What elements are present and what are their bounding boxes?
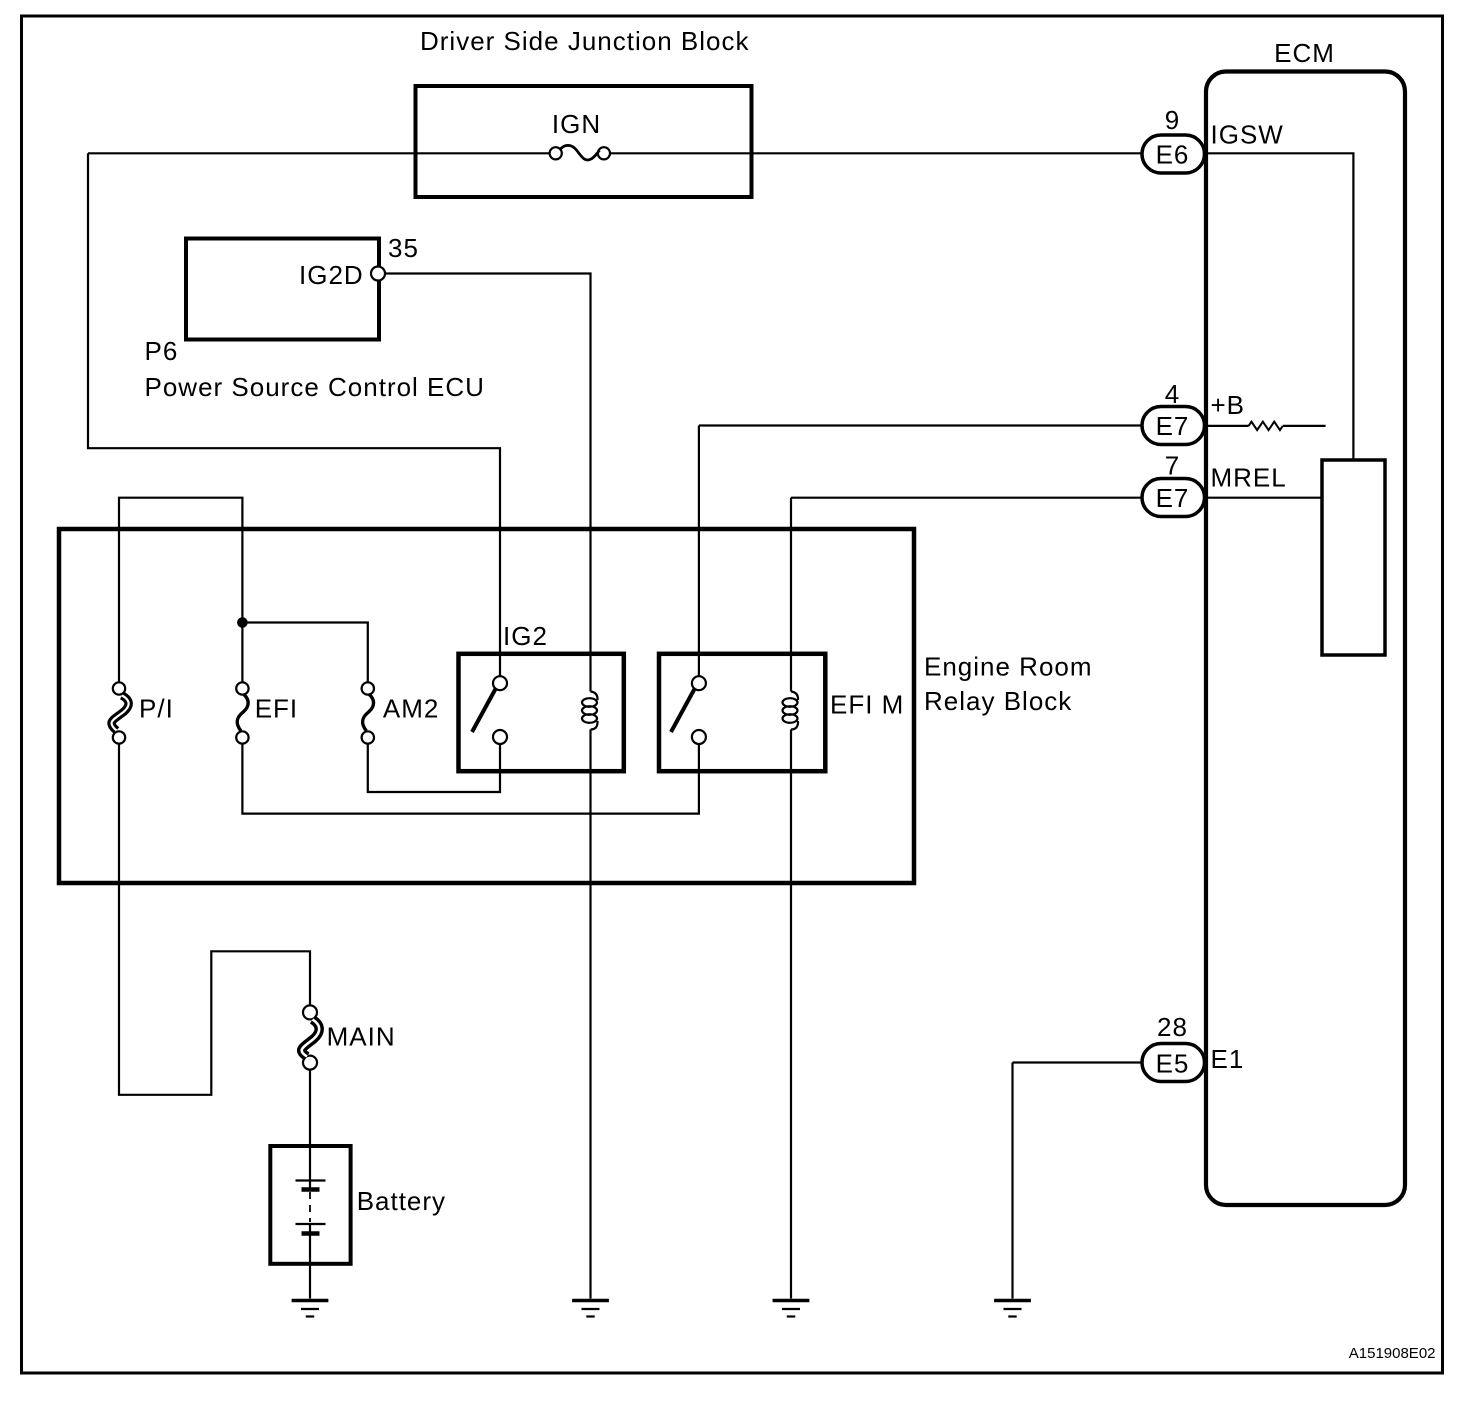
wire +B internal bbox=[1206, 425, 1326, 427]
ECM box bbox=[1206, 72, 1405, 1206]
svg-text:+B: +B bbox=[1211, 390, 1246, 420]
relay IG2 box bbox=[459, 654, 624, 771]
wire IG2 coil to ground bbox=[589, 730, 591, 1299]
ECM driver block bbox=[1322, 460, 1385, 655]
wire IGN drop left bbox=[88, 153, 500, 676]
svg-text:IG2: IG2 bbox=[503, 621, 548, 651]
svg-text:IGN: IGN bbox=[552, 109, 601, 139]
svg-text:EFI M: EFI M bbox=[830, 690, 904, 720]
wire AM2 branch bbox=[242, 623, 367, 683]
svg-text:35: 35 bbox=[388, 233, 419, 263]
svg-text:Battery: Battery bbox=[357, 1186, 446, 1216]
wire bridge P/I EFI bbox=[119, 498, 242, 683]
wire EFI M lower contact to EFI fuse bbox=[242, 744, 699, 814]
svg-text:P/I: P/I bbox=[139, 694, 174, 724]
ground E1 bbox=[994, 1301, 1031, 1317]
ground battery bbox=[292, 1301, 329, 1317]
pin 35 circle bbox=[371, 267, 385, 281]
wire IGSW internal bbox=[1206, 153, 1353, 460]
wire MREL external bbox=[791, 498, 1142, 692]
fuse P/I bbox=[112, 682, 129, 743]
svg-text:P6: P6 bbox=[145, 336, 179, 366]
battery cells bbox=[296, 1146, 326, 1264]
connector E6 pin 9 bbox=[1142, 135, 1205, 173]
relay EFI M coil bbox=[783, 692, 799, 730]
relay IG2 contacts bbox=[472, 676, 507, 744]
wire IGN right to E6 bbox=[610, 152, 1142, 154]
wire IG2 lower contact to AM2 bbox=[368, 744, 500, 792]
svg-text:E1: E1 bbox=[1211, 1044, 1245, 1074]
svg-text:EFI: EFI bbox=[255, 694, 298, 724]
connector E7 pin 7 bbox=[1142, 479, 1205, 517]
svg-text:E7: E7 bbox=[1156, 411, 1190, 441]
wire EFI M coil to ground bbox=[790, 730, 792, 1299]
wire +B external bbox=[699, 426, 1142, 677]
ground IG2 coil bbox=[572, 1301, 609, 1317]
svg-text:28: 28 bbox=[1157, 1012, 1188, 1042]
connector E5 pin 28 bbox=[1142, 1044, 1205, 1082]
wire MAIN to battery bbox=[309, 1070, 311, 1146]
svg-text:AM2: AM2 bbox=[383, 694, 439, 724]
svg-text:4: 4 bbox=[1165, 379, 1180, 409]
fuse EFI bbox=[236, 682, 248, 743]
resistor internal bbox=[1249, 422, 1283, 430]
svg-text:MREL: MREL bbox=[1211, 463, 1287, 493]
wire battery to ground bbox=[309, 1264, 311, 1299]
wire IGN left bbox=[88, 152, 550, 154]
node EFI/AM2 junction bbox=[237, 617, 248, 628]
svg-text:Engine Room: Engine Room bbox=[924, 652, 1093, 682]
svg-text:MAIN: MAIN bbox=[327, 1022, 396, 1052]
svg-text:E5: E5 bbox=[1156, 1049, 1190, 1079]
svg-text:E7: E7 bbox=[1156, 483, 1190, 513]
relay EFI M contacts bbox=[671, 676, 706, 744]
svg-text:9: 9 bbox=[1165, 105, 1180, 135]
connector E7 pin 4 bbox=[1142, 407, 1205, 445]
fuse AM2 bbox=[362, 682, 374, 743]
svg-text:Power Source Control ECU: Power Source Control ECU bbox=[145, 372, 485, 402]
fuse MAIN bbox=[302, 1005, 320, 1069]
wire P/I to MAIN bbox=[119, 744, 310, 1095]
svg-text:Driver Side Junction Block: Driver Side Junction Block bbox=[420, 26, 749, 56]
svg-text:E6: E6 bbox=[1156, 140, 1190, 170]
wire MREL internal bbox=[1206, 497, 1322, 499]
svg-text:IG2D: IG2D bbox=[299, 260, 364, 290]
svg-text:ECM: ECM bbox=[1274, 38, 1335, 68]
fuse IGN bbox=[550, 145, 610, 160]
engine room relay block box bbox=[59, 529, 914, 883]
relay IG2 coil bbox=[582, 692, 598, 730]
relay EFI M box bbox=[659, 654, 825, 771]
svg-text:7: 7 bbox=[1165, 451, 1180, 481]
wire IG2D to IG2 coil bbox=[385, 274, 591, 692]
ECU P6 box bbox=[186, 239, 379, 340]
junction block box bbox=[416, 86, 752, 197]
svg-text:IGSW: IGSW bbox=[1211, 120, 1284, 150]
svg-text:Relay Block: Relay Block bbox=[924, 686, 1072, 716]
svg-text:A151908E02: A151908E02 bbox=[1349, 1345, 1436, 1362]
battery box bbox=[270, 1146, 350, 1264]
wire E1 to ground bbox=[1013, 1063, 1143, 1299]
ground EFI M coil bbox=[773, 1301, 810, 1317]
